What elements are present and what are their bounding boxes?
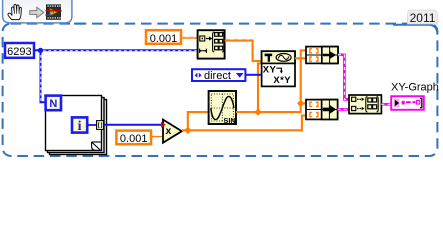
- wire: branch to bundle2 upper input: [301, 102, 306, 104]
- for loop frame back layer 1: [48, 98, 105, 153]
- svg-text:XY-Graph: XY-Graph: [391, 82, 439, 94]
- vi film icon: [45, 4, 61, 19]
- wire: 0.001 to initialize array: [182, 37, 198, 39]
- enum constant direct: [192, 69, 245, 81]
- initialize array node: [198, 30, 225, 58]
- numeric constant 0.001 (loop): [116, 131, 151, 145]
- numeric constant 6293: [5, 43, 34, 58]
- wire: multiply output to bundle2 lower input: [182, 116, 306, 131]
- hand tool icon: [8, 4, 21, 19]
- wire: branch up to sine input: [188, 112, 209, 130]
- bundle (bottom): [306, 100, 338, 120]
- svg-text:2011: 2011: [410, 11, 436, 25]
- page fold corner: [92, 142, 101, 150]
- wire: bundle1 output to build array input 1 (cluster): [338, 55, 349, 100]
- for loop frame back layer 2: [50, 100, 107, 155]
- build xy graph express vi: [262, 51, 295, 86]
- wire: build array output to xy graph terminal (cluster array): [381, 103, 391, 106]
- xy graph terminal: [391, 96, 424, 110]
- wire: sine output across to bundle1 upper input: [236, 50, 306, 112]
- multiply function: [163, 120, 182, 143]
- wire: 0.001 to multiply (thin orange): [151, 136, 165, 138]
- svg-text:N: N: [49, 98, 57, 110]
- svg-text:XY: XY: [263, 65, 277, 76]
- wire: i terminal to tunnel: [87, 124, 97, 126]
- 2011 tab: [408, 10, 438, 24]
- svg-text:direct: direct: [204, 70, 231, 82]
- bundle (top): [306, 47, 338, 64]
- junction dot on 6293 wire: [38, 48, 43, 53]
- coercion dot at multiply input: [161, 122, 166, 128]
- svg-text:i: i: [78, 119, 82, 134]
- svg-text:X*Y: X*Y: [273, 75, 291, 86]
- wire: direct to build xy graph input 3: [246, 74, 262, 76]
- indexing tunnel on loop border: [97, 121, 104, 130]
- tools palette toolbar: [3, 0, 72, 23]
- svg-text:0.001: 0.001: [120, 133, 148, 145]
- selection marquee dashed border: [3, 24, 438, 156]
- arrow tool icon: [30, 7, 44, 18]
- svg-text:x: x: [165, 125, 171, 137]
- junction dot on vertical to bundles: [297, 100, 304, 107]
- dash aligned after toolbar: [74, 23, 85, 25]
- build array node: [349, 95, 381, 114]
- junction dot sine output: [254, 108, 261, 115]
- junction dot multiply output: [184, 127, 191, 134]
- loop count terminal N: [46, 96, 61, 111]
- for loop frame front: [46, 96, 102, 151]
- wire: branch up to build xy graph input 2: [258, 63, 262, 112]
- solid top border segment under 2011 tab: [393, 25, 437, 34]
- wire: tunnel to multiply (blue): [104, 124, 163, 126]
- wire: initialize array output to build xy graph input 1: [225, 41, 262, 61]
- wire: 6293 to initialize array (blue horizontal): [34, 49, 197, 51]
- wire: branch down to loop count terminal: [41, 51, 46, 102]
- loop iteration terminal i: [72, 117, 87, 132]
- svg-text:SIN: SIN: [224, 116, 236, 125]
- numeric constant 0.001 (top): [146, 30, 181, 44]
- sine function icon: [209, 91, 236, 125]
- svg-text:0.001: 0.001: [150, 33, 178, 45]
- svg-text:6293: 6293: [7, 46, 31, 58]
- wire: bundle2 output to build array input 2 (cluster): [338, 108, 349, 111]
- wire: build xy graph output to bundle1 lower input: [295, 57, 306, 59]
